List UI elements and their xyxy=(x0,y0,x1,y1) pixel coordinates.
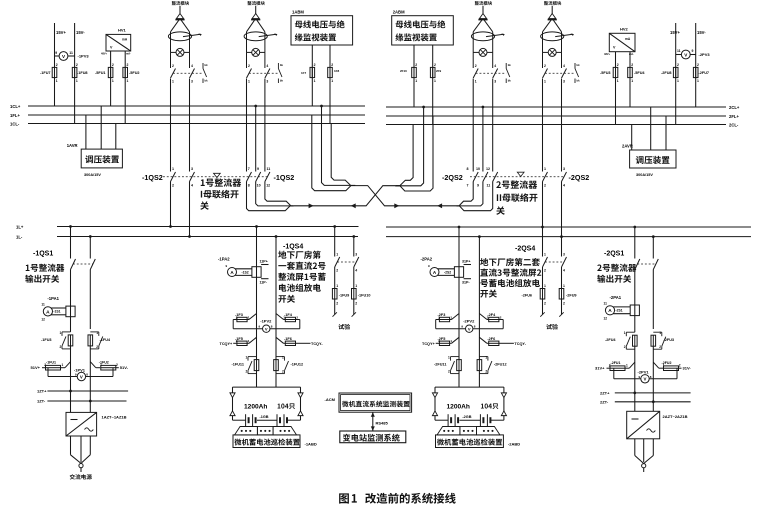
wire 1 columns to battery rail xyxy=(256,371,258,388)
bus voltage & insulation monitor 1ABM xyxy=(291,10,353,46)
voltmeter row -2PV2 xyxy=(436,313,504,332)
svg-text:1: 1 xyxy=(624,331,626,335)
svg-text:1AZT~1AZ1B: 1AZT~1AZ1B xyxy=(102,415,127,420)
battery rail 2 xyxy=(435,386,504,388)
svg-text:-1PA2: -1PA2 xyxy=(218,257,230,262)
svg-text:-1PA1: -1PA1 xyxy=(47,296,59,301)
svg-text:2: 2 xyxy=(563,302,565,306)
svg-text:-2FU2: -2FU2 xyxy=(662,361,672,365)
battery cells -1GB xyxy=(233,414,301,426)
svg-text:4: 4 xyxy=(494,64,496,68)
svg-text:31P-: 31P- xyxy=(462,280,470,284)
svg-text:1: 1 xyxy=(485,356,487,360)
wire 1ABM right to bus xyxy=(329,45,331,124)
fuse -1FU10 xyxy=(352,289,371,306)
svg-text:2: 2 xyxy=(544,184,546,188)
voltmeter row -1PV2 xyxy=(233,313,300,332)
fuse -5FU3 xyxy=(600,63,619,83)
svg-text:2FL+: 2FL+ xyxy=(729,114,739,119)
svg-text:11: 11 xyxy=(677,49,681,53)
disconnector -2QS2 contacts 3-4 xyxy=(562,79,567,188)
wire loop from 1CL+ to crossover xyxy=(320,105,355,186)
bus 2ZT+ xyxy=(615,392,691,395)
svg-text:2CL-: 2CL- xyxy=(729,122,739,127)
wire 1 battery column - xyxy=(275,237,277,314)
svg-text:11: 11 xyxy=(487,184,491,188)
svg-text:2: 2 xyxy=(314,63,316,67)
svg-text:2: 2 xyxy=(336,302,338,306)
svg-text:2: 2 xyxy=(677,63,679,67)
svg-text:2F9: 2F9 xyxy=(436,69,442,73)
voltmeter -2PV3 xyxy=(676,49,711,59)
wire -1QS4 to fuses xyxy=(334,267,336,289)
svg-text:-2FU12: -2FU12 xyxy=(494,363,507,367)
wire 15V+ column xyxy=(55,23,67,106)
svg-text:V: V xyxy=(110,46,113,50)
svg-text:1: 1 xyxy=(56,79,58,83)
svg-text:4: 4 xyxy=(191,184,193,188)
fuse -1FU9 xyxy=(332,289,349,306)
fuse -1FU11 with bypass xyxy=(232,356,259,374)
disconnector -1QS1 xyxy=(25,251,95,283)
battery cells -2GB xyxy=(435,414,504,426)
svg-text:3: 3 xyxy=(563,167,565,171)
svg-text:3: 3 xyxy=(563,80,565,84)
bus 1L+ xyxy=(57,226,359,228)
svg-text:15V-: 15V- xyxy=(76,30,85,35)
inverter 2AZT xyxy=(627,411,688,439)
AC power label xyxy=(70,474,92,479)
svg-text:9: 9 xyxy=(461,325,463,329)
wire loop from 1FL+ to crossover xyxy=(312,115,356,191)
svg-text:2: 2 xyxy=(659,345,661,349)
svg-text:1F7: 1F7 xyxy=(301,71,307,75)
svg-text:7: 7 xyxy=(248,167,250,171)
disconnector -1QS2 contacts 1-2 xyxy=(171,79,176,188)
svg-text:3: 3 xyxy=(191,167,193,171)
svg-text:TCQY+: TCQY+ xyxy=(422,342,436,346)
svg-text:-5FU2: -5FU2 xyxy=(129,71,140,75)
disconnector -2QS2 contacts 8-7 xyxy=(467,79,479,188)
wire right 15V- column xyxy=(696,23,707,107)
disconnector -1QS2 contacts 7-8 xyxy=(247,79,252,188)
wire loop from 1CL- to crossover xyxy=(331,124,355,186)
voltage regulator 1AVR xyxy=(67,143,123,177)
wire -2QS1 to ammeter xyxy=(634,270,636,306)
fuse -5FU1 xyxy=(95,63,114,83)
svg-text:-1ABD: -1ABD xyxy=(305,442,317,447)
svg-text:9: 9 xyxy=(75,373,77,377)
svg-text:12: 12 xyxy=(41,317,45,321)
svg-text:bk: bk xyxy=(280,63,284,67)
svg-text:1200Ah: 1200Ah xyxy=(244,404,267,411)
fuse -2F10 xyxy=(400,63,417,83)
svg-text:1: 1 xyxy=(336,253,338,257)
wire 2ABM right to bus xyxy=(432,45,434,125)
ammeter -2PA2 with shunt -2S2 xyxy=(421,257,472,285)
svg-text:9: 9 xyxy=(428,264,430,268)
svg-text:11P+: 11P+ xyxy=(260,259,268,263)
svg-text:1CL+: 1CL+ xyxy=(10,104,21,109)
svg-text:48V+: 48V+ xyxy=(101,52,108,56)
voltmeter -1PV3 xyxy=(55,51,90,60)
voltage regulator 2AVR feeders xyxy=(632,107,666,150)
svg-text:-1F6: -1F6 xyxy=(284,337,292,341)
wire HV2 left to bus xyxy=(615,52,617,125)
svg-text:1: 1 xyxy=(631,79,633,83)
svg-text:A: A xyxy=(46,309,50,315)
disconnector -2QS2 contacts 10-9 xyxy=(476,106,488,188)
svg-text:-2ABD: -2ABD xyxy=(508,442,520,447)
svg-text:2: 2 xyxy=(172,64,174,68)
svg-text:-2S1: -2S1 xyxy=(616,308,623,312)
rectifier module U2 label xyxy=(247,1,264,5)
svg-text:9: 9 xyxy=(257,167,259,171)
svg-text:2: 2 xyxy=(76,63,78,67)
wire 2 battery column - xyxy=(478,237,480,314)
svg-text:V: V xyxy=(62,54,66,59)
fuse -5FU4 xyxy=(628,63,646,83)
wire -2QS4 to fuses xyxy=(542,267,544,289)
svg-text:-2PA2: -2PA2 xyxy=(421,257,433,262)
fuse -2FU6 xyxy=(522,289,547,306)
svg-text:8: 8 xyxy=(86,373,88,377)
svg-text:-1S1: -1S1 xyxy=(53,309,60,313)
svg-text:11P-: 11P- xyxy=(260,280,268,284)
fuse -5FU2 xyxy=(123,63,140,83)
svg-text:bk: bk xyxy=(205,63,209,67)
rectifier module U3 output contacts xyxy=(473,64,506,84)
disconnector -2QS4 contacts xyxy=(543,253,567,273)
svg-text:-2GB: -2GB xyxy=(462,415,471,419)
svg-text:2: 2 xyxy=(679,364,681,368)
svg-text:-2FU8: -2FU8 xyxy=(661,71,672,75)
wire 2ABM left to bus xyxy=(413,45,415,107)
svg-text:2: 2 xyxy=(336,269,338,273)
svg-text:HV2: HV2 xyxy=(620,27,629,32)
svg-text:mA-: mA- xyxy=(126,52,131,56)
svg-text:-1PV3: -1PV3 xyxy=(78,54,90,59)
fuse -1FU4 with bypass xyxy=(88,331,111,349)
bus voltage & insulation monitor 2ABM xyxy=(392,10,454,46)
svg-text:-2FU7: -2FU7 xyxy=(699,71,710,75)
svg-text:2AZT~2AZ1B: 2AZT~2AZ1B xyxy=(663,414,688,419)
wire tower4 right leg to 2L- xyxy=(561,182,563,237)
fuse -2FU11 with bypass xyxy=(434,356,461,374)
svg-text:2: 2 xyxy=(475,64,477,68)
svg-text:2ZT-: 2ZT- xyxy=(600,399,609,404)
crossover wire left-to-right xyxy=(355,186,456,209)
rectifier module U2 symbol xyxy=(244,6,277,68)
test terminals -2QS4 xyxy=(540,299,563,317)
svg-text:4: 4 xyxy=(355,269,357,273)
svg-text:1: 1 xyxy=(172,167,174,171)
svg-text:2AVR: 2AVR xyxy=(622,144,633,149)
svg-text:2: 2 xyxy=(112,63,114,67)
wire -2QS1 column + from 2L+ xyxy=(634,227,636,259)
svg-text:-1FU11: -1FU11 xyxy=(232,363,244,367)
svg-text:-1PV2: -1PV2 xyxy=(260,319,272,324)
disconnector -2QS4 columns xyxy=(542,227,544,257)
svg-text:-1FU1: -1FU1 xyxy=(46,361,56,365)
svg-text:15V+: 15V+ xyxy=(670,30,680,35)
wire -1QS1 column - from 1L- xyxy=(89,237,91,259)
ammeter -1PA1 with shunt -1S1 xyxy=(41,296,75,322)
transducer HV1 xyxy=(101,28,131,56)
disconnector -1QS2 contacts 11-12 xyxy=(265,79,270,188)
disconnector -1QS2 contacts 9-10 xyxy=(254,105,260,188)
wire 1ABM left to bus xyxy=(311,45,313,106)
svg-text:mA: mA xyxy=(122,38,128,42)
svg-text:1: 1 xyxy=(617,79,619,83)
svg-text:1: 1 xyxy=(415,79,417,83)
disconnector -1QS2 contacts 3-4 xyxy=(190,79,195,188)
svg-text:-2S2: -2S2 xyxy=(444,271,451,275)
fuse -1FU3 with bypass xyxy=(41,331,73,349)
svg-text:11: 11 xyxy=(267,167,271,171)
svg-text:-2FU9: -2FU9 xyxy=(566,294,577,298)
svg-text:1L+: 1L+ xyxy=(16,224,24,229)
wire 1 below shunt xyxy=(256,277,258,313)
svg-text:9: 9 xyxy=(55,51,57,55)
RS485 link arrow xyxy=(371,412,389,431)
svg-text:1: 1 xyxy=(434,79,436,83)
-2QS4 name text xyxy=(480,258,541,298)
inverter 1AZT output funnel xyxy=(71,436,91,472)
wire -2QS1 column - from 2L- xyxy=(652,237,654,259)
svg-text:-5FU3: -5FU3 xyxy=(600,71,611,75)
svg-text:15V+: 15V+ xyxy=(56,30,66,35)
battery rail 1 xyxy=(233,386,301,388)
svg-text:10: 10 xyxy=(476,167,480,171)
svg-text:-2QS2: -2QS2 xyxy=(569,173,590,182)
svg-text:-1FU3: -1FU3 xyxy=(41,338,52,342)
fuse -1F8 xyxy=(328,63,340,83)
svg-text:-1FU12: -1FU12 xyxy=(291,363,304,367)
battery feed arrows 2 xyxy=(432,387,506,420)
voltage regulator 2AVR xyxy=(622,144,676,178)
fuse -2FU4 with bypass xyxy=(605,331,637,349)
inverter 1AZT xyxy=(66,412,127,436)
svg-text:48V+: 48V+ xyxy=(604,52,611,56)
svg-text:TCQY-: TCQY- xyxy=(311,342,323,346)
svg-text:-1FU8: -1FU8 xyxy=(77,71,88,75)
svg-text:-2QS2: -2QS2 xyxy=(442,173,463,182)
svg-text:1: 1 xyxy=(544,80,546,84)
wire loop from 2CL+ to crossover xyxy=(395,106,425,186)
inverter 2AZT output funnel xyxy=(635,439,654,472)
wire HV1 left to bus xyxy=(110,51,112,106)
svg-text:1200Ah: 1200Ah xyxy=(447,404,470,411)
svg-text:2ZT+: 2ZT+ xyxy=(600,390,610,395)
svg-text:9: 9 xyxy=(692,49,694,53)
svg-text:1L-: 1L- xyxy=(16,234,23,239)
svg-text:V: V xyxy=(468,326,471,331)
wire -1QS1 to ammeter xyxy=(70,270,72,307)
fuse -1FU7 xyxy=(40,63,58,83)
svg-text:4: 4 xyxy=(563,269,565,273)
bus 2L- xyxy=(386,236,751,238)
ammeter -2PA1 with shunt -2S1 xyxy=(604,295,640,321)
substation monitoring system box xyxy=(340,431,406,443)
svg-text:mA: mA xyxy=(625,37,631,41)
svg-text:9: 9 xyxy=(477,184,479,188)
svg-text:3: 3 xyxy=(494,80,496,84)
fuse -2FU8 xyxy=(661,63,679,83)
DC system monitor -ACM xyxy=(325,393,412,412)
battery inspection device -1ABD xyxy=(233,435,317,448)
svg-text:2: 2 xyxy=(96,345,98,349)
svg-text:51V-: 51V- xyxy=(120,365,129,370)
svg-text:3: 3 xyxy=(563,253,565,257)
fuse -1FU8 xyxy=(72,63,87,83)
svg-text:2: 2 xyxy=(355,302,357,306)
fuse -2FU7 xyxy=(693,63,709,83)
junctions on lower buses xyxy=(69,225,655,238)
svg-text:31V+: 31V+ xyxy=(595,366,605,371)
voltmeter row -1PV1 xyxy=(31,361,129,381)
-1QS2 name text xyxy=(200,173,241,210)
rectifier module U4 output contacts xyxy=(543,64,576,84)
fuse -2FU12 with bypass xyxy=(477,356,506,374)
svg-text:2F10: 2F10 xyxy=(400,69,407,73)
rectifier module U3 symbol xyxy=(471,6,504,68)
wire fuse to voltmeter row right xyxy=(634,346,636,393)
svg-text:V: V xyxy=(644,377,647,382)
wire 1 columns mid xyxy=(256,314,258,360)
svg-text:2CL+: 2CL+ xyxy=(729,105,740,110)
svg-text:-1FU10: -1FU10 xyxy=(358,294,371,298)
fuse -2FU3 with bypass xyxy=(651,331,674,349)
svg-text:-2QS4: -2QS4 xyxy=(515,246,535,253)
svg-text:9: 9 xyxy=(639,375,641,379)
rectifier module U4 label xyxy=(544,1,561,5)
svg-text:1: 1 xyxy=(659,331,661,335)
svg-text:9: 9 xyxy=(258,325,260,329)
svg-text:1: 1 xyxy=(355,284,357,288)
svg-text:V: V xyxy=(80,374,83,379)
svg-text:8: 8 xyxy=(474,325,476,329)
bus 2L+ xyxy=(386,226,751,228)
svg-text:bk: bk xyxy=(508,79,512,83)
svg-text:3: 3 xyxy=(191,80,193,84)
svg-text:TCQY+: TCQY+ xyxy=(220,342,234,346)
svg-text:-1QS2: -1QS2 xyxy=(142,173,163,182)
svg-text:3: 3 xyxy=(355,253,357,257)
svg-text:-2FU3: -2FU3 xyxy=(664,338,675,342)
svg-text:-2F4: -2F4 xyxy=(487,313,496,317)
svg-text:2: 2 xyxy=(56,63,58,67)
wire HV1 right to bus xyxy=(124,51,126,124)
test label -1QS4 xyxy=(338,324,350,330)
disconnector -2QS2 contacts 1-2 xyxy=(543,79,548,188)
rectifier module U2 output contacts xyxy=(247,64,279,84)
svg-text:2: 2 xyxy=(331,63,333,67)
svg-text:1: 1 xyxy=(76,79,78,83)
svg-text:1F8: 1F8 xyxy=(334,69,340,73)
svg-text:-2PV2: -2PV2 xyxy=(463,319,475,324)
svg-text:2: 2 xyxy=(500,315,502,319)
svg-text:11: 11 xyxy=(69,51,73,55)
svg-text:8: 8 xyxy=(650,375,652,379)
rectifier module U4 symbol xyxy=(541,6,574,68)
battery inspection device -2ABD xyxy=(436,435,521,448)
transducer HV2 xyxy=(604,27,635,57)
svg-text:1CL-: 1CL- xyxy=(10,121,20,126)
svg-text:-1S2: -1S2 xyxy=(242,271,249,275)
svg-text:-5FU4: -5FU4 xyxy=(634,71,645,75)
svg-text:2: 2 xyxy=(617,63,619,67)
svg-text:-5FU1: -5FU1 xyxy=(95,71,106,75)
auxiliary contact of module U4 xyxy=(575,63,580,83)
disconnector -2QS1 xyxy=(597,251,658,283)
rectifier module U1 label xyxy=(172,1,189,5)
svg-text:-ACM: -ACM xyxy=(325,397,336,402)
bus 1ZT+ xyxy=(47,390,128,393)
svg-text:1: 1 xyxy=(475,80,477,84)
svg-text:-2FU11: -2FU11 xyxy=(434,363,446,367)
wire HV2 right to bus xyxy=(629,52,631,107)
svg-text:12: 12 xyxy=(486,167,490,171)
svg-text:-1QS1: -1QS1 xyxy=(33,251,53,258)
svg-text:-1QS2: -1QS2 xyxy=(274,173,295,182)
svg-text:1: 1 xyxy=(563,284,565,288)
svg-text:2: 2 xyxy=(282,370,284,374)
svg-text:1: 1 xyxy=(96,331,98,335)
bus 2ZT- xyxy=(615,400,691,403)
svg-text:8: 8 xyxy=(248,184,250,188)
disconnector -1QS2 link xyxy=(163,176,268,178)
svg-text:1: 1 xyxy=(331,79,333,83)
svg-text:RS485: RS485 xyxy=(376,421,389,426)
battery capacity label 1 xyxy=(244,403,295,410)
svg-text:2: 2 xyxy=(485,370,487,374)
disconnector -2QS2 contacts 12-11 xyxy=(486,79,498,188)
bus 2FL+ xyxy=(386,115,726,117)
svg-text:-1FU7: -1FU7 xyxy=(40,71,51,75)
disconnector -1QS2 label left xyxy=(142,173,163,182)
svg-text:2: 2 xyxy=(172,184,174,188)
test label -2QS4 xyxy=(546,324,558,330)
bundle from -1QS2 to crossover xyxy=(247,182,294,211)
-2QS2 name text xyxy=(496,172,537,215)
wire to inverter 2AZT xyxy=(634,393,636,411)
svg-text:2: 2 xyxy=(448,370,450,374)
caption 图1 改造前的系统接线 xyxy=(339,493,456,504)
bus 1CL- xyxy=(28,123,365,125)
svg-text:-1FU4: -1FU4 xyxy=(100,338,111,342)
svg-text:bk: bk xyxy=(577,79,581,83)
wire tower1 left leg to 1L+ xyxy=(170,182,172,227)
svg-text:-1GB: -1GB xyxy=(259,415,268,419)
wire loop from 2CL- to crossover xyxy=(395,125,413,186)
svg-text:1: 1 xyxy=(248,80,250,84)
wire below shunt right xyxy=(634,316,636,333)
disconnector -1QS4 columns xyxy=(334,227,336,257)
svg-text:1ZT+: 1ZT+ xyxy=(37,389,47,394)
disconnector -2QS2 link xyxy=(470,176,565,178)
fuse -2F9 xyxy=(430,63,441,83)
svg-text:1: 1 xyxy=(282,356,284,360)
svg-text:2: 2 xyxy=(246,370,248,374)
svg-text:1FL+: 1FL+ xyxy=(10,113,20,118)
svg-text:1: 1 xyxy=(544,167,546,171)
fuse -1F7 xyxy=(301,63,316,83)
svg-text:1ZT-: 1ZT- xyxy=(37,399,46,404)
svg-text:1ABM: 1ABM xyxy=(292,10,304,15)
svg-text:1: 1 xyxy=(677,79,679,83)
wire 2 columns to battery rail xyxy=(458,371,460,388)
